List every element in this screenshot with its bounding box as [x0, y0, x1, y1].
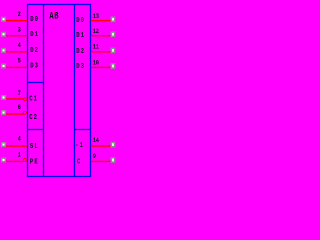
left column horizontal divider 2	[28, 129, 44, 131]
svg-text:4: 4	[18, 42, 21, 50]
left column horizontal divider 1	[28, 82, 44, 84]
pad right pin 13	[111, 17, 114, 21]
svg-text:10: 10	[93, 59, 100, 67]
svg-text:1: 1	[18, 151, 21, 159]
pad left pin D0	[2, 18, 6, 22]
pad right pin 9	[111, 158, 114, 162]
pad left pin D2	[2, 49, 6, 53]
svg-text:SL: SL	[30, 143, 39, 151]
IC U1 outer body	[28, 5, 91, 177]
svg-text:5: 5	[18, 57, 21, 65]
svg-text:PE: PE	[30, 158, 39, 166]
pad left pin D3	[2, 64, 6, 68]
inversion bubble C2	[23, 111, 26, 114]
svg-text:D1: D1	[76, 32, 85, 40]
svg-text:12: 12	[93, 27, 100, 35]
wire left pin C1	[5, 98, 23, 100]
pad left pin C2	[2, 111, 6, 115]
svg-text:C1: C1	[29, 95, 38, 103]
svg-text:D2: D2	[76, 47, 85, 55]
svg-text:-1: -1	[75, 142, 84, 150]
svg-text:AB: AB	[49, 11, 59, 23]
svg-text:6: 6	[18, 103, 21, 111]
svg-text:2: 2	[18, 11, 21, 19]
pad right pin 12	[111, 32, 114, 36]
svg-text:D3: D3	[30, 62, 39, 70]
svg-text:C: C	[77, 158, 81, 166]
pad right pin 10	[111, 64, 114, 68]
svg-text:D0: D0	[76, 16, 85, 24]
wire right pin 11	[91, 51, 111, 53]
svg-text:D3: D3	[76, 63, 85, 71]
left column divider	[43, 5, 45, 177]
pad left pin C1	[2, 96, 6, 100]
wire right pin 12	[91, 35, 111, 37]
red dot on part label	[54, 12, 55, 14]
pad left pin D1	[2, 33, 6, 37]
wire left pin SL	[5, 145, 27, 147]
pad right pin 11	[111, 48, 114, 52]
svg-text:7: 7	[18, 89, 21, 97]
svg-text:11: 11	[93, 43, 100, 51]
svg-text:4: 4	[18, 135, 21, 143]
svg-text:D2: D2	[30, 46, 39, 54]
wire left pin C2	[5, 113, 23, 115]
right column divider	[74, 5, 76, 177]
inversion bubble C1	[23, 98, 26, 101]
svg-text:3: 3	[18, 26, 21, 34]
inversion bubble PE	[23, 159, 26, 162]
svg-text:13: 13	[93, 12, 100, 20]
wire right pin 13	[91, 20, 111, 22]
wire left pin D0	[5, 20, 27, 22]
wire left pin D3	[5, 66, 27, 68]
svg-text:14: 14	[93, 137, 100, 145]
svg-text:D1: D1	[30, 31, 39, 39]
wire left pin D2	[5, 51, 27, 53]
svg-text:C2: C2	[29, 113, 38, 121]
wire left pin PE	[5, 160, 23, 162]
wire right pin 10	[91, 66, 111, 68]
wire left pin D1	[5, 35, 27, 37]
right column horizontal divider	[75, 129, 91, 131]
pad right pin 14	[111, 143, 114, 147]
wire right pin 14	[91, 145, 111, 147]
svg-text:9: 9	[93, 153, 96, 161]
wire right pin 9	[91, 160, 111, 162]
svg-text:D0: D0	[30, 15, 39, 23]
pad left pin PE	[2, 158, 6, 162]
pad left pin SL	[2, 143, 6, 147]
